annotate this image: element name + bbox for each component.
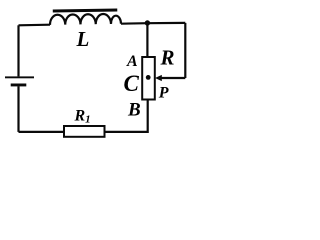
wire slider arm — [161, 77, 186, 79]
svg-text:C: C — [124, 71, 140, 96]
battery short plate — [11, 84, 27, 87]
wire rheostat bottom vertical — [147, 100, 149, 134]
wire top-left horizontal — [19, 24, 51, 27]
wire bottom-right horizontal — [105, 131, 148, 133]
svg-text:R: R — [160, 46, 175, 70]
wire right vertical outer — [184, 23, 186, 78]
slider arrowhead P — [155, 75, 162, 81]
wire left vertical lower (battery to bottom) — [17, 86, 19, 132]
node junction dot — [145, 20, 150, 25]
inductor L coil — [50, 14, 121, 25]
svg-text:B: B — [127, 99, 141, 120]
svg-text:P: P — [158, 85, 169, 102]
inductor core bar — [53, 8, 118, 12]
battery long plate — [5, 76, 34, 78]
rheostat contact dot — [146, 75, 151, 80]
rheostat R body — [142, 57, 155, 100]
wire left vertical upper (battery to top) — [17, 25, 19, 76]
svg-text:A: A — [126, 53, 138, 70]
wire junction to rheostat top — [146, 24, 148, 58]
resistor R1 body — [64, 126, 105, 137]
wire bottom-left horizontal — [19, 131, 65, 133]
svg-text:L: L — [76, 27, 90, 51]
wire top-right horizontal — [121, 22, 185, 25]
